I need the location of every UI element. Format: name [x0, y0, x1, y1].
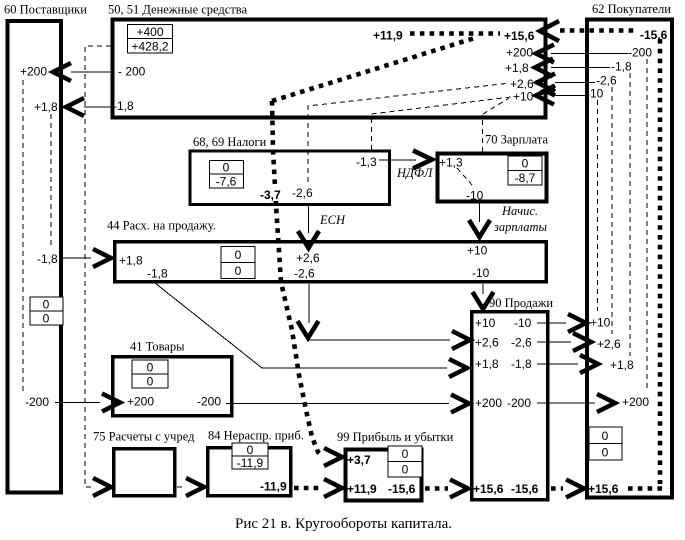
arrowhead into 90 (+15,6)	[450, 480, 468, 498]
svg-text:-200: -200	[507, 396, 531, 410]
balance table in 99 (0/0)	[388, 446, 422, 477]
arrowhead into 75	[93, 478, 111, 496]
svg-text:84 Нераспр. приб.: 84 Нераспр. приб.	[208, 429, 304, 443]
account 70 Зарплата box	[438, 154, 547, 202]
svg-text:- 200: - 200	[118, 65, 146, 79]
svg-text:0: 0	[43, 298, 50, 312]
svg-text:0: 0	[147, 361, 154, 375]
wire 50,51(-1,8) to 60(+1,8)	[84, 106, 112, 108]
wire 90(-1,8) to 62(+1,8)	[537, 363, 578, 365]
svg-text:-200: -200	[25, 395, 49, 409]
arrowhead into 90 (+200)	[451, 395, 469, 413]
balance table in 68,69 (0/-7,6)	[210, 161, 244, 189]
dashed verticals in 62: -10 to +10	[597, 100, 599, 311]
svg-text:ЕСН: ЕСН	[319, 213, 346, 227]
balance table in 84 (0/-11,9)	[232, 443, 268, 470]
svg-text:0: 0	[235, 264, 242, 278]
svg-text:+200: +200	[20, 65, 47, 79]
svg-text:-11,9: -11,9	[260, 480, 287, 494]
svg-text:+10: +10	[590, 316, 611, 330]
arrowhead into 90 (+2,6)	[452, 331, 470, 349]
svg-text:0: 0	[247, 443, 254, 457]
svg-text:0: 0	[43, 312, 50, 326]
dashed -2,6 to +2,6	[611, 87, 613, 334]
svg-text:0: 0	[235, 248, 242, 262]
svg-text:-15,6: -15,6	[388, 482, 416, 496]
svg-text:+2,6: +2,6	[597, 337, 621, 351]
svg-text:Начис.: Начис.	[501, 204, 538, 218]
dashed wire 68,69(-2,6) up to 50,51(+2,6)	[308, 84, 506, 183]
svg-text:-1,8: -1,8	[113, 99, 134, 113]
wire 62(-200) to 50,51(+200)	[551, 53, 628, 55]
svg-text:0: 0	[223, 161, 230, 175]
balance table in 70 (0/-8,7)	[508, 156, 542, 185]
svg-text:-10: -10	[466, 189, 484, 203]
svg-text:70 Зарплата: 70 Зарплата	[485, 133, 548, 147]
wire 90(-10) to 62(+10)	[537, 322, 566, 324]
svg-text:+11,9: +11,9	[347, 482, 377, 496]
dotted vertical in 62	[658, 39, 663, 484]
account 50,51 Денежные средства box	[113, 20, 546, 118]
account 41 Товары box	[113, 357, 232, 416]
arrowhead into 50,51 (+200)	[536, 45, 554, 63]
svg-text:+15,6: +15,6	[473, 482, 504, 496]
wire 90(-200) to 62(+200)	[537, 402, 595, 404]
svg-text:99 Прибыль и убытки: 99 Прибыль и убытки	[337, 430, 454, 444]
arrowhead into 90 (+1,8)	[449, 359, 467, 377]
svg-text:0: 0	[402, 447, 409, 461]
account 99 Прибыль и убытки box	[346, 450, 422, 501]
svg-text:+1,8: +1,8	[610, 358, 634, 372]
arrowhead into 60 (+200)	[53, 63, 71, 81]
svg-text:0: 0	[147, 375, 154, 389]
dashed wire 50,51 to 75 (long left loop)	[85, 46, 111, 487]
svg-text:-10: -10	[472, 266, 490, 280]
svg-text:+1,8: +1,8	[119, 254, 143, 268]
svg-text:75 Расчеты с учред: 75 Расчеты с учред	[93, 430, 195, 444]
wire elbow to 90(+2,6)	[308, 339, 450, 341]
balance table in 62 (0/0)	[589, 427, 622, 460]
svg-text:+428,2: +428,2	[131, 40, 168, 54]
arrowhead into 44 (+1,8)	[93, 249, 111, 267]
arrowhead into 50,51 (+15,6)	[540, 21, 559, 41]
svg-text:+200: +200	[475, 396, 502, 410]
arrowhead into 60 (+1,8)	[66, 98, 84, 116]
arrowhead into 41 (+200)	[102, 394, 120, 412]
wire 68,69(-2,6) to 44(+2,6) ЕСН	[308, 206, 310, 233]
svg-text:-10: -10	[586, 87, 604, 101]
svg-text:-7,6: -7,6	[216, 175, 237, 189]
svg-text:44 Расх. на продажу.: 44 Расх. на продажу.	[107, 219, 216, 233]
svg-text:-8,7: -8,7	[515, 171, 536, 185]
svg-text:-200: -200	[197, 395, 221, 409]
svg-text:+10: +10	[467, 244, 488, 258]
dashed -1,8 to +1,8	[629, 73, 631, 356]
svg-text:-1,8: -1,8	[511, 357, 532, 371]
account 44 Расх. на продажу box	[115, 242, 547, 282]
svg-text:+1,3: +1,3	[439, 156, 463, 170]
dashed elbow to +10	[483, 98, 509, 114]
arrowhead into 99 (+3,7)	[324, 448, 342, 466]
arrowhead into 44 (+10)	[469, 220, 490, 237]
svg-text:-1,3: -1,3	[356, 155, 377, 169]
small extra arrowhead on 50,51 right edge	[545, 86, 555, 96]
arrowhead into 62 (+15,6)	[566, 480, 584, 498]
svg-text:+11,9: +11,9	[373, 29, 403, 43]
account 75 Расчеты с учред box	[114, 449, 175, 496]
svg-text:+15,6: +15,6	[504, 29, 535, 43]
arrowhead into 62 (+2,6)	[573, 333, 591, 351]
dotted horizontal +11,9 to +15,6	[410, 31, 500, 36]
svg-text:41 Товары: 41 Товары	[130, 340, 185, 354]
balance table in 44 (0/0)	[221, 247, 255, 279]
balance table in 60 (0/0)	[30, 297, 63, 326]
svg-text:-2,6: -2,6	[294, 267, 315, 281]
svg-text:+1,8: +1,8	[505, 61, 529, 75]
svg-text:0: 0	[602, 429, 609, 443]
wire 68,69(-1,3) to 70(+1,3) НДФЛ	[379, 159, 416, 161]
dotted wire 84(-11,9) to 99(+11,9)	[294, 486, 322, 491]
wire 50,51(-200) to 60(+200)	[71, 71, 112, 73]
svg-text:+200: +200	[127, 395, 154, 409]
value -3,7 in 68,69	[258, 187, 283, 201]
svg-text:+2,6: +2,6	[475, 336, 499, 350]
dashed vertical in 60 (+1,8 to -1,8)	[50, 114, 52, 248]
wire 62(-2,6) to 50,51(+2,6)	[555, 82, 595, 84]
dashed diagonal in 70 (+1,3 to -10)	[457, 168, 473, 186]
svg-text:+400: +400	[136, 25, 163, 39]
account 62 Покупатели box	[587, 20, 672, 498]
dotted wire 99(-15,6) to 90(+15,6)	[425, 486, 448, 491]
svg-text:Рис 21 в. Кругообороты капитал: Рис 21 в. Кругообороты капитала.	[235, 516, 452, 532]
svg-text:-1,8: -1,8	[147, 267, 168, 281]
dashed wire 70 up to 50,51(+10)	[482, 115, 484, 152]
balance table in 50,51 (+400/+428,2)	[128, 25, 173, 54]
svg-text:-2,6: -2,6	[292, 186, 313, 200]
wire 60(-200) to 41(+200)	[55, 402, 100, 404]
svg-text:+200: +200	[506, 46, 533, 60]
svg-text:90 Продажи: 90 Продажи	[489, 296, 553, 310]
svg-text:+15,6: +15,6	[588, 482, 619, 496]
svg-text:зарплаты: зарплаты	[493, 220, 548, 234]
dotted bottom connector in 62	[628, 486, 662, 491]
dotted diagonal +11,9 inside 50,51	[272, 37, 478, 101]
dotted wire 62(-15,6) to 50,51(+15,6)	[560, 28, 637, 33]
svg-text:-11,9: -11,9	[237, 456, 264, 470]
arrowhead into 70 (+1,3)	[413, 151, 432, 169]
svg-text:0: 0	[522, 157, 529, 171]
dotted wire 50,51(-3,7) down to 99(+3,7)	[272, 101, 322, 456]
wire 44(-2,6) down	[308, 284, 310, 323]
svg-text:+10: +10	[513, 90, 534, 104]
arrowhead into 90 (+10)	[473, 292, 494, 309]
svg-text:62 Покупатели: 62 Покупатели	[592, 2, 671, 16]
arrowhead elbow down	[298, 321, 319, 338]
svg-text:-15,6: -15,6	[511, 482, 539, 496]
arrowhead into 50,51 (+10)	[536, 87, 554, 105]
account 90 Продажи box	[472, 312, 548, 500]
wire 41(-200) to 90(+200)	[226, 403, 449, 405]
arrowhead into 62 (+200)	[597, 394, 615, 412]
arrowhead into 44 (+2,6)	[298, 231, 319, 248]
svg-text:+1,8: +1,8	[34, 100, 58, 114]
svg-text:+2,6: +2,6	[296, 251, 320, 265]
wire 44(-1,8) diagonal to 90(+1,8)	[155, 283, 447, 368]
wire 60(-1,8) to 44(+1,8)	[63, 257, 91, 259]
svg-text:0: 0	[602, 446, 609, 460]
arrowhead into 62 (+1,8)	[580, 355, 598, 373]
svg-text:-1,8: -1,8	[611, 60, 632, 74]
arrowhead into 50,51 (+1,8)	[535, 59, 553, 77]
wire 70(-10) to 44(+10)	[479, 202, 481, 222]
dashed vertical in 60 (+200 to -200)	[22, 80, 24, 392]
svg-text:+3,7: +3,7	[347, 453, 371, 467]
account 60 Поставщики box	[8, 21, 62, 493]
svg-text:-10: -10	[514, 316, 532, 330]
svg-text:-200: -200	[628, 46, 652, 60]
wire 44(-10) to 90(+10)	[482, 284, 484, 294]
account 84 Нераспр. приб. box	[208, 448, 291, 496]
wire 62(-1,8) to 50,51(+1,8)	[551, 67, 610, 69]
balance table in 41 (0/0)	[132, 360, 168, 389]
wire 90(-2,6) to 62(+2,6)	[537, 341, 571, 343]
dotted wire 90(-15,6) to 62(+15,6)	[551, 486, 563, 491]
svg-text:60 Поставщики: 60 Поставщики	[4, 3, 87, 17]
svg-text:68, 69 Налоги: 68, 69 Налоги	[193, 135, 267, 149]
dashed wire 68,69(-1,3) up to 50,51(+10)	[372, 97, 512, 150]
svg-text:-1,8: -1,8	[37, 252, 58, 266]
arrowhead into 84	[186, 478, 204, 496]
arrowhead into 62 (+10)	[568, 314, 586, 332]
svg-text:-2,6: -2,6	[511, 336, 532, 350]
wire 62(-10) to 50,51(+10)	[553, 95, 585, 97]
dashed -200 to +200	[646, 59, 648, 392]
svg-text:+1,8: +1,8	[475, 357, 499, 371]
arrowhead into 50,51 (+2,6)	[537, 74, 555, 92]
svg-text:+10: +10	[475, 316, 496, 330]
arrowhead into 99 (+11,9)	[324, 479, 342, 497]
svg-text:50, 51 Денежные средства: 50, 51 Денежные средства	[108, 3, 248, 17]
svg-text:-15,6: -15,6	[640, 28, 668, 42]
svg-text:0: 0	[402, 463, 409, 477]
svg-text:-3,7: -3,7	[260, 188, 281, 202]
svg-text:-2,6: -2,6	[596, 74, 617, 88]
dashed wire 75 to 84	[177, 486, 184, 488]
svg-text:+200: +200	[622, 395, 649, 409]
account 68,69 Налоги box	[190, 151, 390, 205]
